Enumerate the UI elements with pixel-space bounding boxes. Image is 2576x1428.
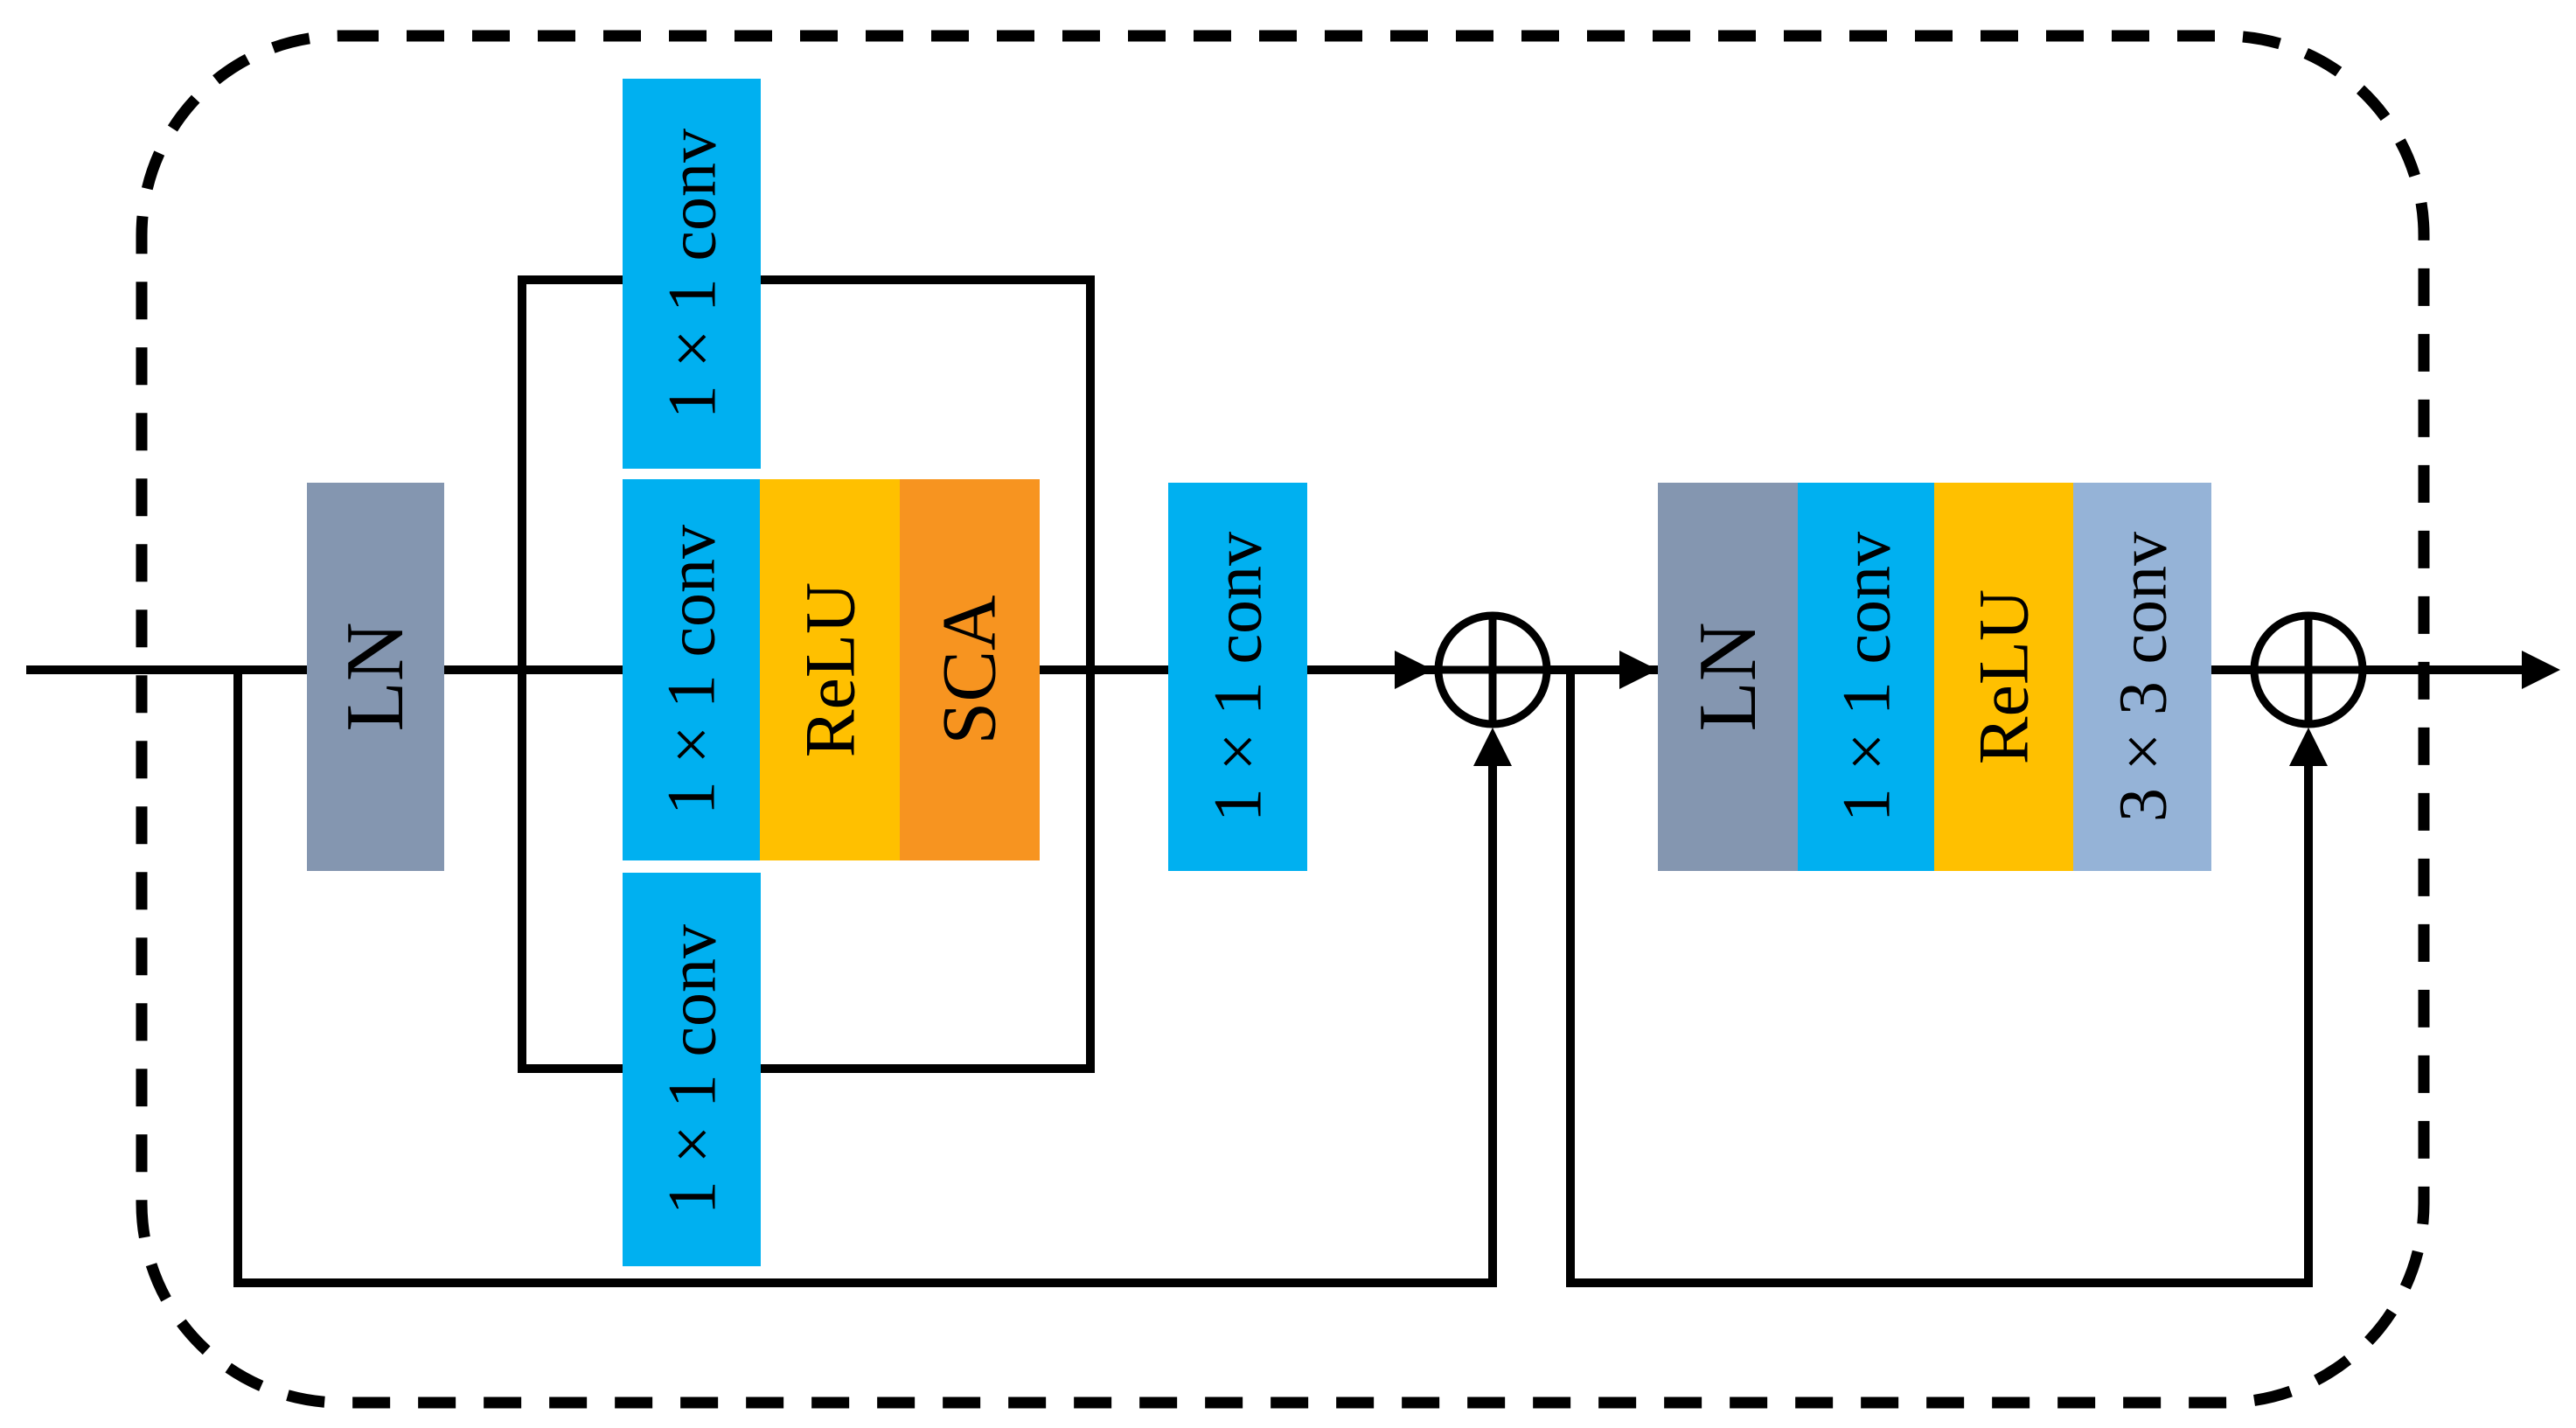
svg-text:LN: LN xyxy=(330,622,421,731)
svg-text:3 × 3 conv: 3 × 3 conv xyxy=(2105,532,2181,822)
svg-text:ReLU: ReLU xyxy=(790,582,870,757)
svg-text:1 × 1 conv: 1 × 1 conv xyxy=(1828,532,1904,822)
svg-text:1 × 1 conv: 1 × 1 conv xyxy=(654,924,730,1215)
svg-text:ReLU: ReLU xyxy=(1964,589,2043,764)
svg-text:1 × 1 conv: 1 × 1 conv xyxy=(1200,532,1276,822)
svg-text:1 × 1 conv: 1 × 1 conv xyxy=(654,129,730,419)
svg-text:SCA: SCA xyxy=(928,595,1013,744)
svg-text:1 × 1 conv: 1 × 1 conv xyxy=(653,525,729,815)
svg-text:LN: LN xyxy=(1682,622,1773,731)
